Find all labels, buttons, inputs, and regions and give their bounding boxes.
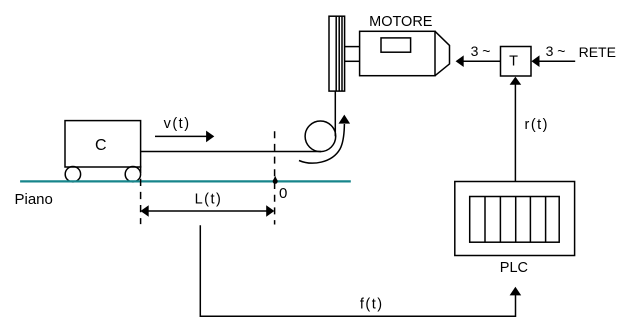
wire RETE to T [531, 55, 575, 67]
rope cart to pulley [141, 151, 321, 153]
svg-text:MOTORE: MOTORE [369, 14, 433, 30]
wire f(t) [200, 225, 521, 316]
svg-text:RETE: RETE [579, 44, 616, 60]
measure L(t) [141, 205, 275, 217]
svg-text:f(t): f(t) [360, 297, 384, 313]
transformer T [501, 47, 532, 77]
svg-text:L(t): L(t) [195, 192, 223, 208]
cart wheel right [125, 167, 140, 182]
origin dot [273, 179, 278, 184]
cable pulley to drum [334, 91, 336, 136]
dashed reference line at cart [140, 166, 142, 224]
PLC [455, 182, 575, 256]
svg-text:r(t): r(t) [525, 117, 550, 133]
motor terminal box [381, 38, 411, 52]
svg-text:3 ~: 3 ~ [471, 43, 491, 59]
cart wheel left [65, 167, 80, 182]
svg-text:3 ~: 3 ~ [546, 43, 566, 59]
svg-text:PLC: PLC [500, 260, 528, 276]
svg-text:Piano: Piano [15, 191, 53, 208]
motor body [360, 31, 435, 75]
svg-text:v(t): v(t) [164, 116, 191, 132]
cart C body [65, 121, 141, 167]
pulley [305, 121, 336, 152]
winch drum [329, 16, 345, 91]
motor end cone [435, 31, 450, 75]
rotation arrow [299, 115, 350, 163]
wire T to motor (3-phase) [456, 55, 501, 67]
plane line [20, 180, 351, 182]
wire r(t) PLC to T [510, 77, 522, 182]
svg-text:C: C [95, 137, 107, 154]
dashed reference line at origin [274, 131, 276, 224]
motor shaft [345, 47, 360, 62]
svg-text:0: 0 [279, 185, 287, 202]
arrow v(t) [155, 131, 214, 143]
svg-text:T: T [509, 54, 518, 70]
